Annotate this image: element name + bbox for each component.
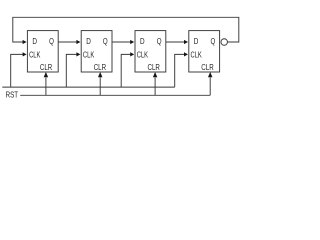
svg-text:CLR: CLR <box>148 62 160 72</box>
clock riser wire to U3 CLK <box>121 54 130 87</box>
arrow into U1 CLR <box>44 72 49 77</box>
wire U1 Q to U2 D <box>58 41 76 43</box>
wire U2 Q to U3 D <box>112 41 131 43</box>
arrow into U4 CLK <box>184 52 188 56</box>
svg-text:Q: Q <box>157 36 162 46</box>
D flip-flop U1 box <box>27 31 58 72</box>
D flip-flop U3 box <box>135 31 166 72</box>
wire U3 Q to U4 D <box>166 41 185 43</box>
svg-text:CLR: CLR <box>94 62 106 72</box>
clock riser wire to U2 CLK <box>66 54 76 87</box>
svg-text:CLK: CLK <box>137 49 149 59</box>
RST riser wire to U4 CLR <box>209 78 211 96</box>
inverter bubble on U4 Q output <box>221 39 228 46</box>
arrow into U2 CLK <box>76 52 80 56</box>
svg-text:D: D <box>140 36 145 46</box>
arrow into U1 D <box>23 40 27 44</box>
arrow into U2 D <box>76 40 80 44</box>
feedback wire from bubble over the top to U1 D <box>13 17 239 42</box>
svg-text:D: D <box>32 36 37 46</box>
svg-text:Q: Q <box>103 36 108 46</box>
D flip-flop U4 box <box>189 31 220 72</box>
svg-text:D: D <box>194 36 199 46</box>
clock bus rail <box>2 86 174 88</box>
arrow into U3 D <box>130 40 134 44</box>
arrow into U2 CLR <box>98 72 103 77</box>
arrow into U4 CLR <box>208 72 213 77</box>
arrow into U3 CLK <box>130 52 134 56</box>
svg-text:CLR: CLR <box>40 62 52 72</box>
RST riser wire to U2 CLR <box>99 78 101 96</box>
svg-text:Q: Q <box>211 36 216 46</box>
svg-text:Q: Q <box>49 36 54 46</box>
clock riser wire to U4 CLK <box>175 54 185 87</box>
arrow into U1 CLK <box>23 52 27 56</box>
svg-text:CLK: CLK <box>83 49 95 59</box>
D flip-flop U2 box <box>81 31 112 72</box>
arrow into U3 CLR <box>153 72 158 77</box>
svg-text:RST: RST <box>6 90 18 100</box>
svg-text:CLK: CLK <box>191 49 203 59</box>
RST riser wire to U1 CLR <box>45 78 47 96</box>
RST rail <box>20 94 210 96</box>
arrow into U4 D <box>184 40 188 44</box>
RST riser wire to U3 CLR <box>154 78 156 96</box>
svg-text:D: D <box>86 36 91 46</box>
svg-text:CLK: CLK <box>29 49 41 59</box>
svg-text:CLR: CLR <box>201 62 213 72</box>
clock riser wire to U1 CLK <box>11 54 23 87</box>
